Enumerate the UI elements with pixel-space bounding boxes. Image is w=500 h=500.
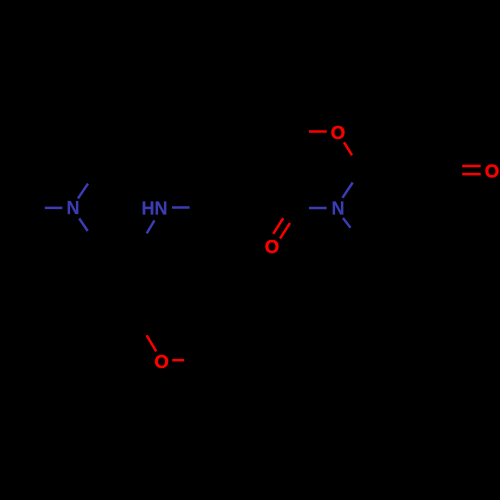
svg-text:O: O [485,160,499,181]
svg-text:O: O [154,351,168,372]
svg-text:HN: HN [142,199,168,219]
svg-text:N: N [67,198,80,218]
svg-text:O: O [265,236,279,257]
svg-text:N: N [332,198,345,218]
svg-text:O: O [331,122,345,143]
